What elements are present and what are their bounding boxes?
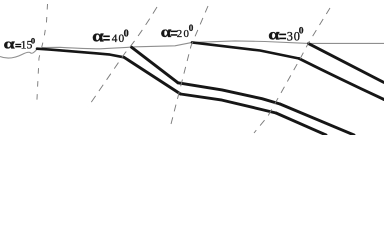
road upper edge: 40 deg steep section	[132, 47, 179, 83]
road section 15 deg (single line)	[37, 49, 124, 58]
svg-text:0: 0	[31, 36, 35, 46]
thin surface reference line	[0, 41, 384, 58]
dashed divider 3 (through peak)	[170, 6, 208, 128]
upper road: 30 deg right section upper edge	[309, 44, 384, 83]
upper road: 30 deg right section lower edge	[299, 59, 384, 100]
road lower edge: 40 deg steep section	[124, 57, 181, 94]
road lower edge: 30 deg bottom section	[276, 113, 326, 135]
label alpha=15deg	[4, 36, 36, 53]
svg-text:α: α	[92, 27, 104, 46]
label alpha=40deg	[92, 27, 128, 46]
label alpha=20deg	[161, 23, 194, 41]
svg-text:0: 0	[189, 23, 194, 33]
dashed divider 1 (at 15 deg label)	[37, 4, 48, 103]
svg-text:0: 0	[124, 28, 129, 39]
road lower edge: 20 deg section	[181, 94, 277, 113]
svg-text:α: α	[268, 27, 280, 44]
label alpha=30deg	[268, 26, 304, 43]
svg-text:α: α	[4, 36, 15, 52]
dashed divider 2 (through first bend)	[88, 7, 157, 107]
road upper edge: 20 deg section	[178, 83, 280, 104]
road upper edge: 30 deg bottom section	[280, 104, 354, 135]
upper road: gentle section from peak	[192, 42, 299, 58]
svg-text:0: 0	[299, 26, 304, 36]
svg-text:α: α	[161, 23, 172, 41]
dashed divider 4 (through right bend)	[254, 8, 330, 133]
